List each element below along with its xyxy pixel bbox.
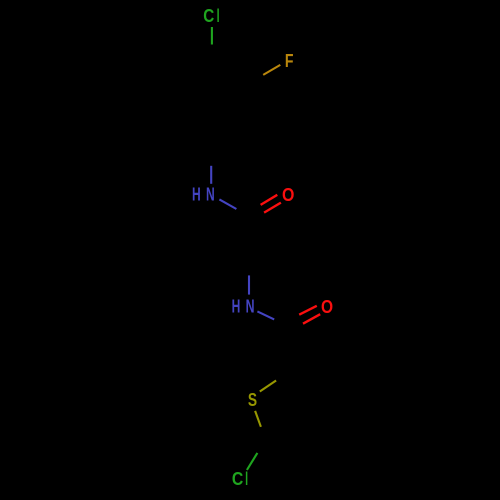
chlorine Cl1 label (top substituent on benzene ring) bbox=[203, 6, 219, 26]
wire: S-C2 thiophene bond, S-colored half bbox=[260, 381, 276, 392]
wire: ring C-F bond, F-colored half bbox=[263, 65, 280, 75]
wire: C=O1 double bond line 2 bbox=[264, 203, 281, 213]
wire: CH2-N2 bond, N-colored half bbox=[248, 275, 250, 294]
svg-text:O: O bbox=[282, 185, 294, 205]
svg-text:N: N bbox=[206, 185, 215, 205]
wire: C=O1 double bond line 1 bbox=[261, 195, 278, 205]
svg-text:O: O bbox=[321, 297, 333, 317]
svg-text:C: C bbox=[232, 469, 243, 489]
svg-text:l: l bbox=[217, 6, 220, 26]
wire: C=O2 double bond line 2 bbox=[303, 314, 320, 324]
wire: ring C-Cl1 bond, Cl-colored half bbox=[211, 27, 213, 45]
chlorine Cl2 label (thiophene 5-substituent) bbox=[232, 469, 248, 489]
wire: N2-C(=O) bond, N-colored half bbox=[257, 311, 274, 319]
svg-text:H: H bbox=[232, 297, 241, 317]
wire: N1-C(=O) bond, N-colored half bbox=[219, 199, 236, 209]
wire: C=O2 double bond line 1 bbox=[299, 306, 317, 315]
wire: thiophene C5-Cl2 bond, Cl-colored half bbox=[247, 453, 258, 470]
svg-text:F: F bbox=[285, 51, 294, 71]
wire: ring-N1 bond, N-colored half bbox=[210, 166, 212, 184]
svg-text:H: H bbox=[192, 185, 201, 205]
amide N-H 1 label HN (anilide nitrogen) bbox=[192, 185, 215, 205]
svg-text:C: C bbox=[203, 6, 214, 26]
amide N-H 2 label HN (glycine nitrogen) bbox=[232, 297, 255, 317]
svg-text:l: l bbox=[245, 469, 248, 489]
svg-text:N: N bbox=[246, 297, 255, 317]
wire: S-C5 thiophene bond, S-colored half bbox=[255, 411, 261, 427]
svg-text:S: S bbox=[248, 390, 257, 410]
